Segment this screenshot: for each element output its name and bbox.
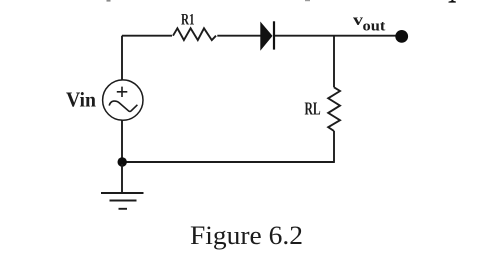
svg-text:Figure 6.2: Figure 6.2: [190, 221, 303, 250]
wire: R1 to diode: [217, 35, 261, 37]
AC source Vin: [103, 80, 143, 120]
svg-text:out: out: [363, 19, 386, 35]
svg-text:RL: RL: [305, 98, 321, 118]
diode D1: [261, 21, 274, 49]
cropped text remnant (middle): [305, 0, 310, 1]
ground: [101, 164, 144, 209]
cropped text remnant (left): [107, 0, 111, 2]
resistor R1: [173, 28, 216, 40]
wire: left vertical, top rail to source: [121, 36, 123, 80]
plus sign: [117, 87, 128, 97]
wire: bottom rail: [122, 161, 334, 163]
svg-text:R1: R1: [181, 11, 195, 28]
wire: diode to output: [275, 35, 398, 37]
wire: source bottom to ground rail: [121, 120, 123, 162]
output terminal dot: [395, 30, 408, 43]
cropped text remnant (right, letter foot): [449, 0, 456, 3]
junction dot: [118, 157, 127, 166]
wire: top rail from source corner to output dot: [122, 35, 172, 37]
sine wave: [109, 101, 137, 111]
svg-text:Vin: Vin: [66, 88, 96, 112]
resistor RL: [328, 87, 340, 131]
wire: RL to bottom rail: [333, 131, 335, 163]
wire: right vertical, vout node down to RL: [333, 36, 335, 88]
